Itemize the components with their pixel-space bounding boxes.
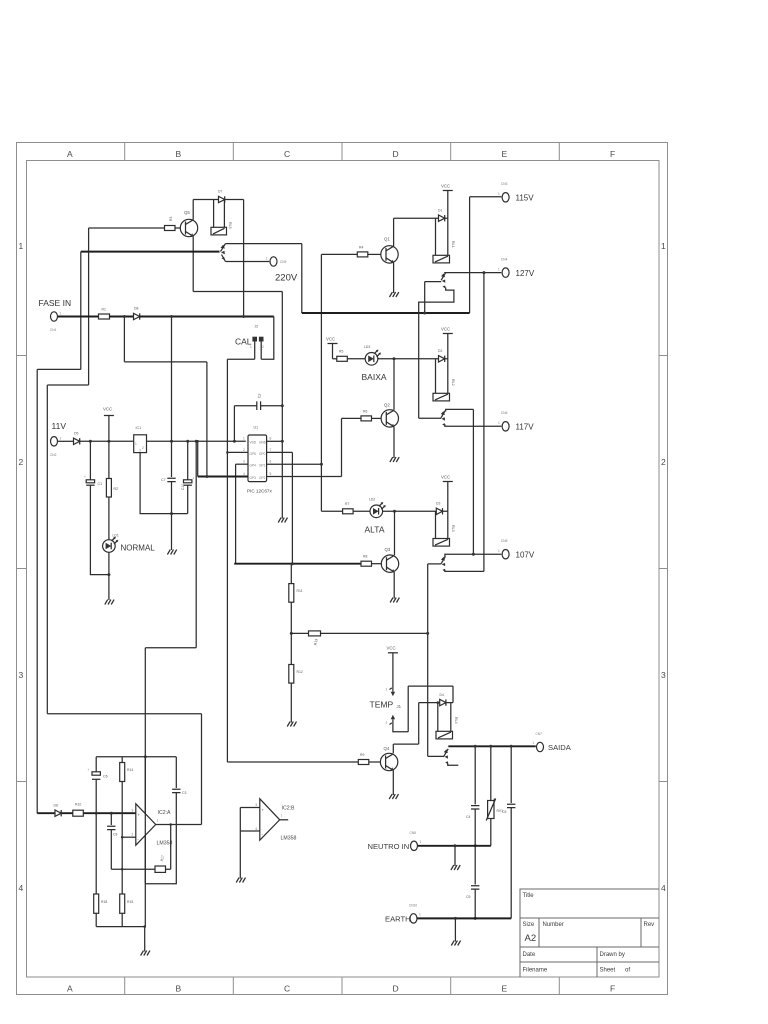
capacitor C4: [471, 806, 479, 809]
wire Q3 base heavy: [234, 563, 361, 565]
svg-text:Rev: Rev: [644, 922, 655, 928]
svg-text:1: 1: [661, 241, 666, 251]
svg-text:D: D: [393, 149, 399, 159]
svg-text:C9: C9: [466, 895, 470, 899]
wire RL5 coil right leg: [223, 200, 225, 228]
ground IC2B: [236, 878, 245, 883]
wire GP3 pull branch: [197, 441, 199, 476]
wire RL2 contact common: [419, 417, 441, 419]
wire Q5 base horizontal: [89, 227, 165, 229]
svg-text:1: 1: [157, 819, 159, 823]
svg-text:6: 6: [270, 460, 272, 464]
junction pin8/VSS: [281, 440, 284, 443]
wire 11V seg3 (IC1 out to U1 pin1): [147, 440, 246, 442]
svg-text:3: 3: [132, 809, 134, 813]
wire neutro gnd stem: [454, 846, 456, 866]
svg-text:1: 1: [498, 268, 500, 272]
junction C5 top: [510, 745, 513, 748]
wire RL4 coil left leg: [437, 703, 439, 732]
capacitor C7: [167, 478, 175, 481]
wire U1 pin7: [267, 451, 293, 453]
wire Q4 collector riser: [392, 744, 394, 753]
svg-text:SAIDA: SAIDA: [548, 743, 572, 752]
ground R12: [287, 722, 296, 727]
connector CN8: [411, 841, 418, 850]
svg-text:VCC: VCC: [326, 337, 335, 342]
svg-text:VCC: VCC: [387, 646, 396, 651]
power VCC TEMP: [387, 646, 398, 692]
power VCC BAIXA: [326, 337, 338, 359]
power VCC RL3: [441, 475, 453, 482]
resistor R5 (BAIXA): [337, 356, 348, 361]
svg-text:A: A: [67, 984, 73, 994]
svg-text:C10: C10: [181, 484, 185, 490]
wire C4 top lead: [474, 746, 476, 804]
wire CAL right pin lead: [260, 342, 262, 360]
led LD2 ALTA: [370, 502, 386, 518]
svg-text:LM358: LM358: [281, 836, 297, 842]
voltage regulator IC1: [134, 435, 147, 453]
connector CN7: [537, 742, 544, 751]
svg-text:+: +: [193, 477, 195, 481]
diode D8 (FASE): [134, 313, 140, 319]
diode D4: [440, 699, 446, 705]
wire 115V riser: [469, 197, 471, 313]
svg-text:CN1: CN1: [50, 328, 57, 332]
svg-text:R4: R4: [359, 246, 363, 250]
svg-text:1: 1: [243, 437, 245, 441]
title block divider Date/Drawn by: [596, 947, 598, 977]
svg-text:VCC: VCC: [103, 407, 112, 412]
svg-text:LD3: LD3: [364, 345, 370, 349]
wire ref rail through opamp: [144, 757, 146, 884]
junction C4/neutro: [474, 844, 477, 847]
resistor R9 (Q4 base): [358, 760, 369, 765]
svg-text:VCC: VCC: [441, 327, 450, 332]
wire J1 riser: [407, 686, 409, 732]
junction C6/input: [95, 812, 98, 815]
svg-text:D: D: [393, 984, 399, 994]
junction C10 top: [186, 440, 189, 443]
wire R15 bottom lead: [121, 913, 123, 926]
svg-text:RL5: RL5: [228, 222, 232, 229]
wire GP4 riser: [235, 464, 237, 564]
wire C9 bottom lead: [474, 889, 476, 918]
wire J1 pin2 lead: [393, 719, 408, 732]
svg-text:R7: R7: [345, 502, 349, 506]
svg-text:BAIXA: BAIXA: [362, 372, 387, 382]
wire C10 bottom lead: [187, 485, 189, 514]
svg-text:1: 1: [135, 442, 137, 446]
wire 127V out: [444, 272, 501, 274]
wire RL5 coil left leg: [213, 200, 215, 228]
wire Q4 collector link: [393, 743, 418, 745]
svg-text:5: 5: [270, 472, 272, 476]
wire FASE segment 2: [110, 316, 134, 318]
ground Q3: [390, 598, 399, 603]
junction C9/earth: [474, 917, 477, 920]
junction RL4 left leg: [437, 701, 440, 704]
led LD1 NORMAL: [103, 537, 119, 553]
wire left drop from Q5 base: [88, 228, 90, 385]
svg-text:R3: R3: [169, 217, 173, 221]
svg-text:C2: C2: [257, 393, 262, 398]
wire C6 top lead: [95, 757, 97, 772]
svg-text:GP0: GP0: [259, 452, 266, 456]
svg-text:C5: C5: [502, 810, 506, 814]
svg-text:115V: 115V: [516, 194, 535, 203]
junction RV top: [489, 745, 492, 748]
wire RL3 throw2: [445, 570, 484, 571]
svg-text:8: 8: [270, 437, 272, 441]
svg-text:3: 3: [139, 449, 141, 453]
wire contact common RL5: [81, 251, 220, 253]
wire output A: [156, 824, 202, 826]
wire RL1 coil right leg: [447, 218, 449, 255]
svg-text:3: 3: [661, 670, 666, 680]
svg-text:RL1: RL1: [451, 241, 455, 248]
junction C1/LED gnd: [107, 573, 110, 576]
wire C7 lead: [171, 317, 173, 478]
svg-text:B: B: [176, 984, 182, 994]
connector CN2: [51, 437, 58, 446]
wire C9 top lead: [474, 846, 476, 885]
wire R12 top lead: [290, 633, 292, 664]
wire Q4 base: [227, 761, 358, 763]
svg-text:2: 2: [19, 457, 24, 467]
wire U1 pin2: [227, 451, 248, 453]
power VCC (main): [103, 407, 114, 442]
wire left rail2 down: [46, 385, 48, 714]
wire contact NC to CN9: [226, 261, 270, 263]
svg-text:GP3: GP3: [250, 476, 257, 480]
svg-text:C7: C7: [161, 478, 166, 482]
svg-text:3: 3: [243, 460, 245, 464]
wire opamp output riser: [201, 714, 203, 825]
junction GP5 pin2: [226, 451, 229, 454]
wire R2 to LED: [108, 497, 110, 540]
ground NEUTRO: [451, 865, 460, 870]
wire R8 to Q3: [372, 563, 382, 565]
svg-text:1: 1: [420, 840, 422, 844]
svg-text:1: 1: [498, 549, 500, 553]
svg-text:1: 1: [419, 913, 421, 917]
wire resistor to Q5: [175, 227, 181, 229]
capacitor C5: [507, 804, 515, 807]
wire EARTH main: [418, 917, 512, 919]
svg-text:Q2: Q2: [384, 403, 390, 408]
resistor R14: [120, 763, 125, 782]
wire CAL left pin lead: [254, 342, 256, 360]
wire Q2 emitter: [393, 427, 395, 458]
svg-text:E: E: [502, 149, 508, 159]
svg-text:TEMP: TEMP: [370, 700, 394, 710]
svg-text:GP5: GP5: [250, 452, 257, 456]
relay coil RL1: [433, 255, 450, 263]
junction C7 gnd rail: [170, 512, 173, 515]
junction Q2 collector: [393, 357, 396, 360]
relay contact RL4: [444, 749, 449, 765]
wire Q4 emitter: [392, 770, 394, 795]
wire RL4 coil right leg: [450, 703, 452, 732]
junction 127V rail: [482, 271, 485, 274]
junction U1 pin1: [233, 440, 236, 443]
junction C1 top: [89, 440, 92, 443]
svg-text:E: E: [502, 984, 508, 994]
title block divider Size/Number: [538, 918, 540, 947]
svg-text:of: of: [625, 968, 630, 974]
junction sense/x427: [426, 632, 429, 635]
junction rail/ref: [144, 755, 147, 758]
svg-text:C6: C6: [103, 775, 108, 779]
wire bottom rail gnd stem: [144, 927, 146, 952]
relay contact RL1: [441, 273, 446, 289]
wire R6 to Q2: [372, 417, 382, 419]
svg-text:RL3: RL3: [451, 525, 455, 532]
svg-text:VCC: VCC: [441, 184, 450, 189]
svg-text:2: 2: [262, 345, 264, 349]
svg-text:R9: R9: [360, 753, 364, 757]
wire VSS rail vertical: [281, 292, 283, 519]
svg-text:4: 4: [661, 883, 666, 893]
ground EARTH: [451, 941, 460, 946]
ground Q2: [390, 457, 399, 462]
svg-text:6: 6: [256, 827, 258, 831]
wire J1 top link: [408, 685, 453, 687]
capacitor C1: [84, 475, 95, 485]
connector CN4: [502, 268, 509, 277]
svg-text:1: 1: [498, 421, 500, 425]
wire C3 top lead: [175, 757, 177, 788]
connector CN10: [410, 914, 417, 923]
sheet inner border frame: [27, 161, 660, 978]
wire earth gnd stem: [454, 918, 456, 941]
diode D7: [219, 196, 225, 202]
wire R9 to Q4: [369, 761, 381, 763]
wire RL2 throw2 to CN6: [445, 425, 501, 427]
wire RL3 contact common: [428, 563, 442, 565]
wire inverting input: [122, 836, 136, 838]
svg-text:CN8: CN8: [410, 831, 417, 835]
svg-text:107V: 107V: [516, 551, 535, 560]
resistor R2: [106, 479, 111, 498]
svg-text:C8: C8: [113, 833, 117, 837]
wire relay RL5 top rail: [193, 199, 243, 201]
wire R12 bottom lead: [290, 683, 292, 722]
led LD3 BAIXA: [365, 350, 381, 366]
relay contact RL5: [221, 244, 226, 262]
svg-text:C3: C3: [182, 791, 186, 795]
svg-text:CN7: CN7: [536, 732, 543, 736]
svg-text:2: 2: [386, 721, 388, 725]
diode D5 (11V): [74, 438, 80, 444]
svg-text:1: 1: [533, 741, 535, 745]
svg-text:LD2: LD2: [369, 498, 375, 502]
relay coil RL4: [436, 731, 453, 739]
wire U1 pin3: [236, 463, 248, 465]
wire far-left rail down to opamp: [36, 369, 38, 813]
wire C5 to earth: [510, 808, 512, 919]
wire jog to x47: [47, 384, 88, 386]
svg-text:+: +: [84, 475, 86, 479]
wire GP1 rail: [320, 254, 322, 511]
connector CN5: [502, 550, 509, 559]
wire RL2 throw1: [446, 409, 474, 411]
capacitor C10: [184, 477, 195, 486]
wire Q1 emitter: [393, 263, 395, 293]
wire LED to ground: [108, 552, 110, 600]
svg-text:R10: R10: [75, 803, 81, 807]
wire BAIXA to coil: [378, 358, 448, 360]
wire RL3 throw1 to CN5: [445, 554, 501, 557]
wire RL1 coil left leg: [435, 218, 437, 255]
svg-text:Q3: Q3: [385, 547, 391, 552]
title block row line under Size/Number/Rev: [520, 946, 659, 948]
junction fb/R14: [121, 868, 124, 871]
varistor RV1: [486, 798, 496, 820]
wire IC1 pin3 down: [140, 453, 188, 514]
jumper J2 pin 2: [259, 337, 264, 342]
wire U1 pin4: [198, 476, 248, 478]
svg-text:C1: C1: [98, 482, 103, 486]
connector CN9: [270, 257, 277, 266]
resistor R4 (Q1 base): [357, 252, 368, 257]
frame row tick marks right: [659, 356, 668, 782]
junction R14/-in: [121, 836, 124, 839]
wire SAIDA out: [448, 745, 536, 747]
junction VCC/R2: [107, 440, 110, 443]
svg-text:D4: D4: [440, 693, 444, 697]
wire R14 top lead: [121, 757, 123, 763]
resistor R11: [289, 584, 294, 603]
ground Q4: [389, 794, 398, 799]
svg-text:IC2:A: IC2:A: [158, 810, 172, 816]
svg-text:D6: D6: [54, 804, 58, 808]
svg-text:CN9: CN9: [280, 260, 287, 264]
svg-text:C: C: [284, 149, 290, 159]
wire C5 top lead: [510, 746, 512, 803]
wire left drop from contact common: [80, 252, 82, 370]
wire RL1 throw1 drop: [424, 282, 426, 313]
svg-text:2: 2: [132, 833, 134, 837]
wire C8 top lead: [110, 813, 112, 825]
svg-text:CN6: CN6: [501, 411, 508, 415]
svg-text:F: F: [610, 149, 615, 159]
wire RL5 net down to FASE: [243, 200, 245, 317]
wire FASE segment 3: [140, 316, 274, 318]
svg-text:1: 1: [266, 257, 268, 261]
wire C2 left: [234, 405, 256, 407]
title block outline: [520, 889, 659, 977]
diode D2: [439, 356, 445, 362]
wire U1 pin8: [267, 440, 283, 442]
wire feedback rail: [111, 868, 155, 870]
wire BAIXA seg2: [347, 358, 365, 360]
wire contact NO to 115 rail: [226, 243, 302, 245]
transistor Q4: [380, 753, 397, 770]
capacitor C3: [172, 789, 180, 792]
connector CN6: [502, 422, 509, 431]
wire contact common rail x427: [427, 564, 429, 757]
wire GP3 riser x207: [206, 362, 208, 477]
svg-text:1: 1: [60, 437, 62, 441]
wire RL4 throw2 stub: [448, 764, 459, 766]
svg-text:2: 2: [661, 457, 666, 467]
junction throw1/selector rail: [423, 312, 426, 315]
svg-text:1: 1: [250, 345, 252, 349]
svg-text:127V: 127V: [516, 269, 535, 278]
ground LD1: [105, 600, 114, 605]
wire BAIXA seg1: [333, 358, 337, 360]
svg-text:C: C: [284, 984, 290, 994]
IC U1 PIC body: [248, 435, 267, 482]
junction divider node: [290, 632, 293, 635]
relay coil RL2: [433, 393, 450, 401]
svg-text:GP1: GP1: [259, 464, 266, 468]
svg-text:CN5: CN5: [501, 539, 508, 543]
wire divider to sense: [291, 632, 427, 634]
relay coil RL5: [211, 227, 227, 235]
frame column tick marks top: [125, 143, 560, 161]
wire R14 to inverting rail: [121, 782, 123, 895]
wire Q5 collector riser: [192, 200, 194, 220]
wire FASE junction drop x124: [123, 317, 125, 362]
svg-text:7: 7: [281, 814, 283, 818]
wire RL3 coil left leg: [435, 511, 437, 538]
svg-text:+: +: [88, 768, 90, 772]
diode D1: [439, 215, 445, 221]
svg-text:C4: C4: [466, 815, 470, 819]
capacitor C6: [88, 768, 101, 779]
svg-text:D7: D7: [218, 190, 222, 194]
wire 115V out: [470, 196, 502, 198]
svg-text:R8: R8: [363, 555, 367, 559]
svg-text:220V: 220V: [275, 273, 298, 284]
wire VCC RL1 stem: [447, 191, 449, 219]
junction FASE x124: [123, 315, 126, 318]
wire C2 right: [261, 405, 283, 407]
wire GP5/CAL rail down: [226, 359, 228, 452]
ground Q1: [390, 292, 399, 297]
transistor Q5: [180, 219, 197, 236]
wire opamp top rail: [96, 756, 176, 758]
wire VCC RL3 stem: [447, 482, 449, 512]
svg-text:EARTH: EARTH: [385, 915, 411, 924]
svg-text:VCC: VCC: [441, 475, 450, 480]
wire R11 top lead: [290, 564, 292, 584]
diode D6: [55, 810, 61, 816]
wire GP2 riser: [341, 418, 343, 476]
wire VCC RL2 stem: [447, 334, 449, 359]
title block row line under Date/Drawn by: [520, 961, 659, 963]
svg-text:R15: R15: [127, 900, 133, 904]
wire C8 bottom lead: [110, 830, 112, 870]
wire 115 rail drop: [301, 244, 303, 313]
connector CN1: [51, 312, 58, 321]
resistor R18: [94, 894, 99, 913]
wire C7 bottom lead: [171, 482, 173, 550]
wire C4 bottom lead: [474, 809, 476, 846]
wire NEUTRO main: [418, 845, 491, 847]
wire 11V seg2: [80, 440, 134, 442]
svg-text:Q5: Q5: [184, 210, 190, 215]
svg-text:R14: R14: [127, 768, 133, 772]
svg-text:1: 1: [498, 192, 500, 196]
wire D4 rail drop: [418, 703, 420, 745]
wire RL2 coil right leg: [447, 359, 449, 394]
wire RL1 throw1: [425, 281, 442, 283]
svg-text:GND: GND: [259, 441, 267, 445]
